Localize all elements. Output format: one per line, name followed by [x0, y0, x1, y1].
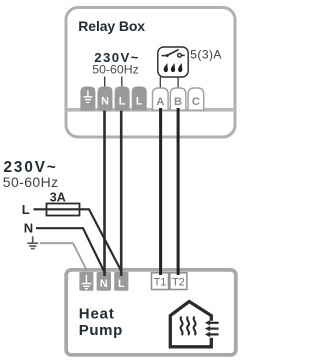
terminal PE (heat pump)	[79, 272, 93, 291]
house icon with heating	[170, 302, 218, 347]
svg-text:5(3)A: 5(3)A	[190, 48, 222, 62]
svg-text:Heat: Heat	[79, 306, 115, 323]
terminal PE (relay box)	[80, 87, 95, 111]
svg-text:B: B	[174, 96, 182, 108]
ground (mains earth symbol)	[27, 236, 38, 248]
svg-text:N: N	[24, 220, 33, 235]
svg-text:3A: 3A	[50, 191, 66, 205]
relay box terminal rail	[66, 108, 235, 112]
wire: earth feed to heat pump PE	[40, 243, 87, 270]
wire: 230V stub to terminal N	[104, 77, 106, 89]
label: Heat Pump title	[79, 306, 123, 340]
svg-text:Pump: Pump	[79, 322, 123, 339]
terminal T1	[152, 273, 169, 290]
wire: neutral feed to heat pump N	[36, 228, 104, 271]
wire: relay N to heat pump N	[103, 111, 106, 276]
svg-text:T2: T2	[172, 276, 185, 288]
terminal B (relay box)	[170, 88, 186, 110]
svg-text:Relay Box: Relay Box	[78, 18, 145, 34]
svg-text:50-60Hz: 50-60Hz	[92, 63, 138, 77]
terminal L (heat pump)	[114, 272, 128, 291]
relay contact U1 (switch with heat symbols)	[158, 47, 188, 77]
terminal T2	[170, 273, 187, 290]
svg-text:L: L	[22, 202, 30, 217]
svg-text:T1: T1	[154, 276, 167, 288]
terminal A (relay box)	[153, 88, 169, 110]
terminal C (relay box)	[188, 88, 204, 110]
wire: relay contact to terminal A	[159, 77, 161, 89]
fuse F1 3A	[47, 204, 80, 216]
terminal L2 (relay box)	[132, 87, 147, 111]
svg-text:N: N	[100, 278, 108, 290]
wire: relay contact to terminal B	[177, 77, 179, 89]
svg-text:N: N	[101, 96, 109, 108]
terminal L1 (relay box)	[115, 87, 130, 111]
svg-text:L: L	[136, 96, 143, 108]
svg-text:A: A	[156, 96, 164, 108]
terminal N (heat pump)	[97, 272, 111, 291]
svg-text:C: C	[192, 96, 200, 108]
wire: relay L to heat pump L	[120, 111, 123, 276]
wire: terminal A to T1	[159, 108, 162, 275]
svg-text:L: L	[118, 278, 125, 290]
svg-text:L: L	[119, 96, 126, 108]
wire: terminal B to T2	[177, 108, 180, 275]
svg-text:50-60Hz: 50-60Hz	[3, 174, 59, 190]
wire: 230V stub to terminal L	[121, 77, 123, 89]
relay box enclosure	[66, 8, 235, 138]
terminal N (relay box)	[98, 87, 113, 111]
wire: live feed via fuse to heat pump L	[34, 209, 122, 271]
heat pump enclosure	[66, 270, 236, 355]
